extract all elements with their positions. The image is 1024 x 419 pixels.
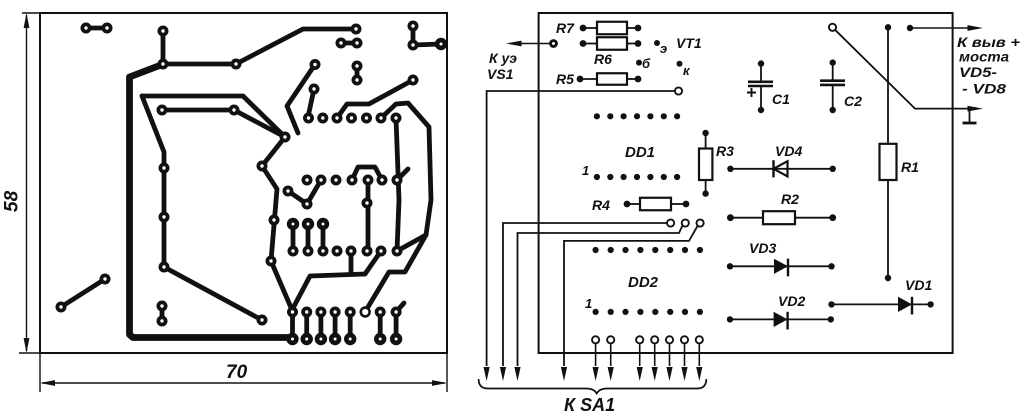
resistor R6 [580, 37, 642, 50]
wire: trace pad stub [397, 169, 408, 180]
IC DD2 pads top row [593, 247, 704, 253]
wire: barbell traces bottom [293, 312, 397, 339]
svg-text:R5: R5 [556, 71, 574, 87]
IC DD2 pads bottom row [593, 309, 704, 315]
wire: trace from big pad right [337, 80, 413, 118]
wire: big right loop trace [365, 103, 431, 312]
brace for SA1 connections [479, 379, 707, 394]
wire: trace from pad to junction to top-right [163, 29, 356, 64]
wire: polygon left side trace [142, 96, 164, 267]
IC DD1 pads bottom row [594, 174, 680, 180]
arrow to bridge output (lower) [968, 106, 984, 112]
wire diagonal to lower arrow [833, 27, 969, 108]
dimension line 58 (vertical) [24, 13, 30, 353]
wire: diagonal pad link [288, 180, 321, 204]
component board outline (right panel) [539, 13, 953, 353]
svg-text:R1: R1 [901, 159, 919, 175]
PCB pads [56, 21, 419, 327]
wire: polygon top trace [142, 96, 285, 137]
svg-text:58: 58 [2, 190, 23, 212]
svg-text:R6: R6 [594, 51, 612, 67]
diode VD1 [828, 297, 934, 315]
svg-text:1: 1 [585, 296, 592, 311]
wire: small vertical pair [355, 66, 360, 80]
svg-text:C2: C2 [844, 93, 862, 109]
resistor R3 [699, 130, 712, 197]
pin ring [682, 219, 689, 226]
svg-text:R2: R2 [781, 191, 799, 207]
dimension line 70 (horizontal) [40, 380, 447, 386]
arrow to bridge + output (top) [907, 25, 983, 31]
wire: vertical through pads [366, 180, 371, 251]
svg-text:э: э [660, 41, 667, 56]
wire: short pad link [308, 89, 314, 117]
pin ring [675, 87, 682, 94]
svg-text:- VD8: - VD8 [962, 81, 1006, 97]
wire: trace pad column right [262, 137, 292, 310]
svg-text:R7: R7 [556, 20, 575, 36]
pin ring [667, 219, 674, 226]
transistor VT1 emitter dot [654, 40, 660, 46]
diode VD2 [727, 312, 834, 330]
PCB ring pad [361, 308, 370, 317]
capacitor C1 [747, 60, 773, 113]
transistor VT1 base dot [636, 60, 642, 66]
resistor R4 [624, 198, 690, 211]
wire: pad stub down [349, 251, 354, 274]
wire to SA1 (run 4) [561, 226, 698, 381]
svg-text:DD1: DD1 [625, 144, 655, 161]
diode VD3 [727, 259, 835, 277]
wire: small horizontal pair [341, 41, 357, 46]
wire: top right corner trace [413, 26, 441, 45]
wire: pad diagonal to run [365, 251, 381, 274]
resistor R1 [880, 24, 897, 281]
svg-text:VD4: VD4 [775, 143, 802, 159]
svg-text:R4: R4 [592, 197, 610, 213]
diode VD4 [727, 160, 836, 177]
svg-text:DD2: DD2 [628, 274, 659, 291]
wire: inner horizontal trace [161, 110, 285, 137]
wire: long diagonal trace [164, 267, 262, 320]
ground symbol [963, 109, 977, 123]
transistor VT1 collector dot [677, 61, 683, 67]
DD2 output rings and wires to SA1 [592, 336, 703, 381]
svg-text:VD2: VD2 [778, 293, 805, 309]
resistor R5 [577, 73, 642, 85]
svg-text:VS1: VS1 [487, 66, 514, 82]
wire: V junction to horizontal run [292, 274, 365, 310]
wire: barbell traces middle [293, 224, 323, 251]
wire: thick C-shaped trace [130, 65, 292, 338]
arrow to VS1 gate [506, 39, 558, 48]
wire: loop inner trace [396, 118, 399, 251]
IC DD1 pads top row [594, 113, 680, 119]
pin ring [697, 219, 704, 226]
svg-text:К SA1: К SA1 [564, 395, 615, 415]
wire: bottom-left diagonal trace [61, 279, 105, 307]
wire to SA1 (run 2) [500, 223, 667, 381]
resistor R2 [727, 211, 836, 224]
svg-text:VT1: VT1 [676, 35, 702, 51]
wire: diagonal from upper pad [287, 65, 315, 134]
wire: stub on bottom pad [396, 303, 404, 312]
wire to SA1 (run 3) [514, 226, 682, 382]
svg-text:70: 70 [226, 362, 248, 383]
svg-text:VD5-: VD5- [959, 64, 997, 80]
svg-text:1: 1 [582, 163, 589, 178]
svg-text:VD1: VD1 [905, 277, 932, 293]
PCB board outline (left panel) [19, 13, 447, 392]
wire: diagonal to loop [397, 235, 426, 251]
svg-text:моста: моста [959, 49, 1009, 65]
wire: small pad pair trace [160, 306, 165, 321]
wire to SA1 (from R5 node) [484, 91, 677, 381]
capacitor C2 [820, 59, 845, 113]
svg-text:VD3: VD3 [749, 240, 776, 256]
wire: top-left pad pair trace [86, 26, 107, 31]
svg-text:б: б [642, 56, 651, 71]
PCB big filled pads [286, 38, 447, 345]
wire: hat bridge trace [352, 167, 382, 180]
pin ring top [829, 24, 836, 31]
svg-text:C1: C1 [772, 91, 790, 107]
svg-text:К уэ: К уэ [489, 50, 517, 66]
svg-text:R3: R3 [716, 143, 734, 159]
resistor R7 [580, 22, 642, 35]
